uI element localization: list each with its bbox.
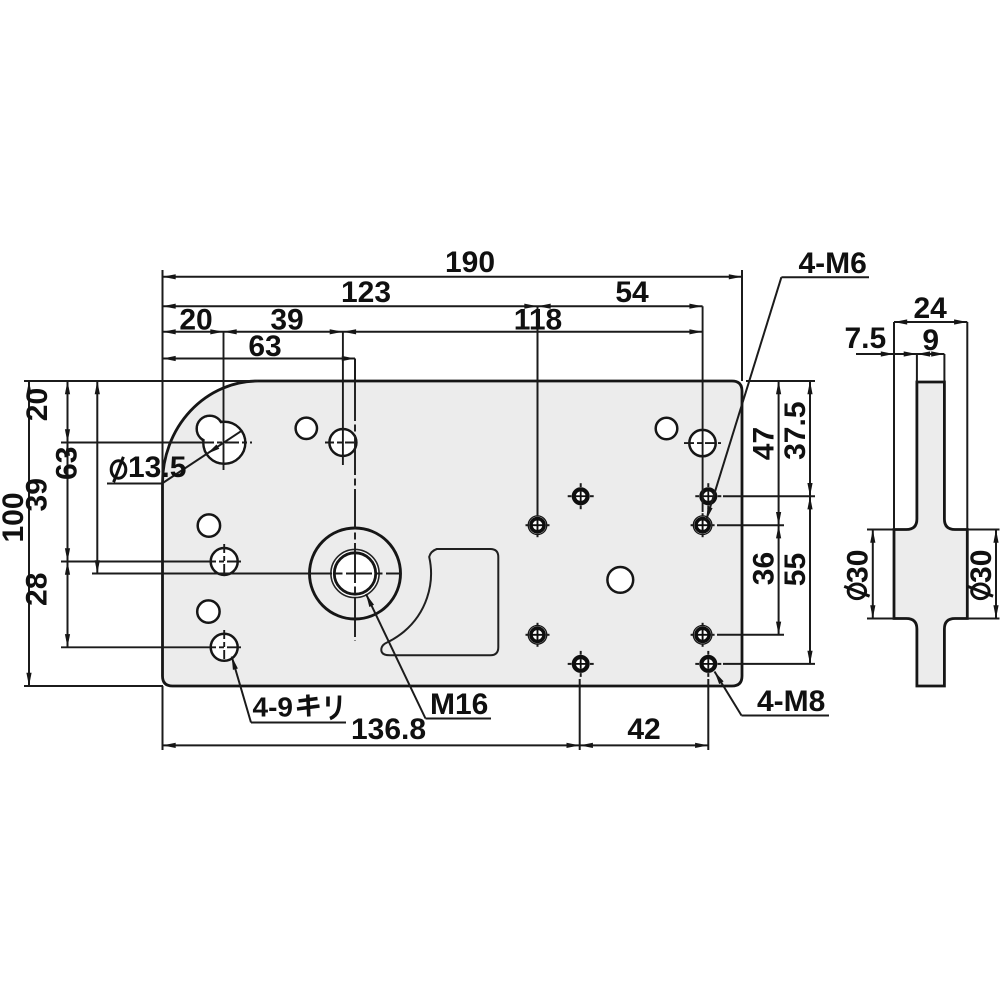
svg-text:63: 63 (51, 447, 84, 480)
extension line bottom edge left (24, 685, 163, 687)
plain hole 13 right (702,443) (689, 430, 715, 456)
arrows 37.5/55 (807, 381, 812, 394)
svg-text:13.5: 13.5 (128, 451, 186, 484)
plain hole 7 left (209,525) (198, 514, 220, 536)
arrows 63 left (95, 381, 100, 394)
M16 boss circle (310, 528, 401, 619)
side view extension x=894 (893, 322, 895, 530)
arrows 24 side (894, 319, 907, 324)
M16 hole circle (334, 553, 375, 594)
svg-text:136.8: 136.8 (351, 713, 426, 746)
plain hole 7 top (306,428) (296, 418, 317, 439)
M6 tapped holes (526, 513, 715, 647)
9-drill hole (224,561) (211, 548, 238, 575)
svg-text:24: 24 (914, 292, 948, 325)
centerline y=647.3 (61, 646, 207, 648)
side view dim line 7.5 and 9 (856, 353, 944, 355)
svg-text:7.5: 7.5 (844, 322, 886, 355)
dim text phi30 left (844, 584, 869, 599)
pocket outline (381, 549, 498, 655)
arrows 123 / 54 (163, 304, 176, 309)
dimension line 63 left (96, 381, 98, 574)
side view extension x=944.4 (943, 354, 945, 382)
arrows 63 top (163, 356, 176, 361)
centerline x=342.9 column (342, 332, 344, 465)
svg-text:123: 123 (341, 276, 391, 309)
extension left y=442.5 (61, 442, 200, 444)
svg-text:9: 9 (922, 324, 939, 357)
katakana RI (328, 696, 340, 719)
dim text phi30 right (968, 584, 993, 599)
svg-text:63: 63 (248, 330, 281, 363)
dashed centerline through (702,443) (684, 442, 721, 444)
arrows 100 (26, 381, 31, 394)
extension line x=579.7 M8 column bottom (579, 679, 581, 750)
dimension line 136.8 and 42 (163, 744, 709, 746)
side view dim line 24 (894, 321, 967, 323)
svg-text:28: 28 (21, 573, 54, 606)
arrows 7.5 / 9 side (881, 351, 894, 356)
plain hole 7 top right (666,428) (656, 418, 678, 440)
svg-text:30: 30 (965, 550, 998, 583)
extension line x=355 M16 column (354, 359, 356, 382)
dimension line 20 39 28 left (67, 381, 69, 647)
side view boss top edge extensions (867, 529, 894, 531)
arrows dimension 190 (163, 274, 176, 279)
arrows 47/36 (776, 381, 781, 394)
svg-text:39: 39 (21, 478, 54, 511)
side view extension x=916.9 (916, 354, 918, 382)
extension line y=525 right M6 (717, 524, 784, 526)
katakana KI (297, 695, 320, 717)
M8 tapped holes (568, 483, 722, 677)
plain hole 7 left (208,611) (197, 600, 219, 622)
svg-text:M16: M16 (430, 688, 488, 721)
dimension line 20 39 118 (163, 331, 703, 333)
extension line x=162.5 bottom (162, 686, 164, 750)
side view extension x=967.3 (966, 322, 968, 530)
svg-text:20: 20 (21, 388, 54, 421)
extension line y=381 right (746, 380, 815, 382)
svg-text:190: 190 (445, 246, 495, 279)
keyhole slot (9 drill + 13.5 drill overlapped) (197, 416, 246, 464)
dimension line 37.5 55 right (809, 381, 811, 664)
svg-text:42: 42 (627, 713, 660, 746)
arrows 20 / 39 / 118 (163, 329, 176, 334)
extension line right edge up (741, 270, 743, 381)
leader 4-M8 (715, 672, 830, 716)
arrows 136.8 / 42 (163, 743, 176, 748)
dimension line 47 36 right (778, 381, 780, 635)
dimension line 190 (163, 276, 743, 278)
plain hole 9 mid (620,580) (607, 567, 633, 593)
centerline y=561.5 (61, 561, 207, 563)
svg-text:37.5: 37.5 (779, 402, 812, 460)
centerline x=223.5 keyhole column (223, 332, 225, 470)
side view boss bottom edge extensions (867, 618, 894, 620)
side view phi30 right dim (995, 530, 997, 619)
extension line top edge left (24, 380, 258, 382)
svg-text:30: 30 (842, 550, 875, 583)
extension line y=496 right M8 (723, 495, 815, 497)
plate outline (front view) (163, 381, 743, 686)
svg-text:20: 20 (179, 304, 212, 337)
leader M16 (366, 594, 491, 719)
centerline y=573.5 M16 row (92, 573, 306, 575)
extension line x=537.5 M6 column (537, 306, 539, 516)
extension line x=708.3 M8 column bottom (707, 679, 709, 750)
arrows phi30 right (993, 530, 998, 543)
svg-text:47: 47 (748, 427, 781, 460)
dimension line 123 and 54 (163, 305, 703, 307)
extension line plate left edge up (162, 270, 164, 483)
9-drill hole (224,647) (211, 634, 238, 661)
svg-text:4-9: 4-9 (253, 692, 293, 723)
side view body (894, 382, 967, 686)
svg-text:118: 118 (514, 304, 562, 337)
svg-text:54: 54 (615, 276, 649, 309)
svg-text:55: 55 (779, 553, 812, 586)
9-drill hole (343,442) (329, 429, 356, 456)
label phi13.5 (111, 457, 126, 482)
M16 vertical centerline (354, 381, 356, 641)
dimension texts horizontal (179, 246, 947, 746)
arrows 20/39/28 left (65, 381, 70, 394)
centerline x=702.6 M6 column (702, 306, 704, 512)
leader phi13.5 (107, 431, 241, 483)
svg-text:4-M6: 4-M6 (799, 247, 867, 280)
keyhole centerlines (200, 442, 252, 444)
svg-text:4-M8: 4-M8 (757, 685, 825, 718)
leader 4-M6 (706, 277, 781, 520)
extension line y=635 right M6 (717, 634, 784, 636)
leader 4-9 kiri (232, 657, 346, 723)
dimension texts rotated (0, 388, 998, 606)
arrows phi30 left (870, 530, 875, 543)
svg-text:36: 36 (748, 552, 781, 585)
dimension line 63 top (163, 358, 356, 360)
dimension line 100 (28, 381, 30, 686)
M16 thread circle (331, 549, 379, 597)
extension line y=664 right M8 (723, 663, 815, 665)
side view phi30 left dim (872, 530, 874, 619)
